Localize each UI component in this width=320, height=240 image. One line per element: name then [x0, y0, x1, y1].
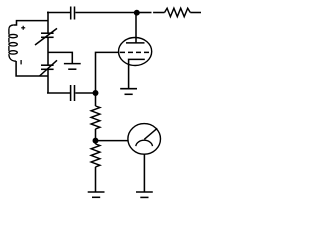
ground (bypass, right of C2): [64, 64, 81, 70]
meter M1 dial arc: [136, 140, 153, 146]
node C (divider tap dot): [93, 138, 97, 142]
resistor R1 (plate load): [165, 8, 191, 17]
wire junction to resistor (with break): [139, 12, 165, 14]
label + (coil top polarity): [21, 26, 25, 30]
resistor R2 (upper divider): [91, 93, 100, 129]
tube V1 plate lead: [135, 13, 137, 43]
wire meter to ground: [143, 154, 145, 192]
tube V1 cathode: [129, 59, 145, 88]
inductor L1 (tank coil): [9, 25, 17, 61]
wire between variable capacitors: [47, 37, 49, 65]
ground (cathode): [120, 89, 137, 95]
wire top horizontal left segment: [47, 12, 70, 14]
tube V1 plate bar: [126, 42, 145, 44]
wire lower left vertical: [47, 69, 49, 93]
capacitor C1 (top coupling): [71, 7, 75, 20]
wire tap to meter: [96, 140, 129, 142]
wire branch to bypass ground: [48, 52, 72, 63]
node A (plate junction dot): [135, 11, 139, 15]
label - (coil bottom polarity tick): [20, 60, 22, 64]
wire coil bottom lead: [16, 61, 48, 76]
wire divider middle: [95, 129, 97, 144]
tube V1 grid (dashed): [120, 51, 152, 53]
wire resistor to output: [190, 12, 201, 14]
ground (divider): [88, 192, 105, 197]
variable capacitor C2: [35, 28, 57, 45]
wire bottom horizontal to grid cap: [47, 92, 70, 94]
meter M1 (circle): [128, 124, 161, 155]
wire resistor to ground: [95, 167, 97, 192]
capacitor C4 (grid coupling): [71, 85, 75, 101]
wire grid cap to junction: [75, 92, 95, 94]
tube V1 (triode envelope): [119, 38, 152, 66]
variable capacitor C3: [40, 60, 58, 76]
meter M1 needle: [144, 128, 157, 139]
wire left branch upper vertical: [47, 12, 49, 34]
wire top horizontal to plate junction: [75, 12, 137, 14]
wire coil top lead: [14, 21, 48, 25]
ground (meter): [136, 192, 153, 197]
wire grid riser: [96, 52, 120, 93]
node B (grid junction dot): [93, 91, 97, 95]
resistor R3 (lower divider): [91, 144, 100, 167]
